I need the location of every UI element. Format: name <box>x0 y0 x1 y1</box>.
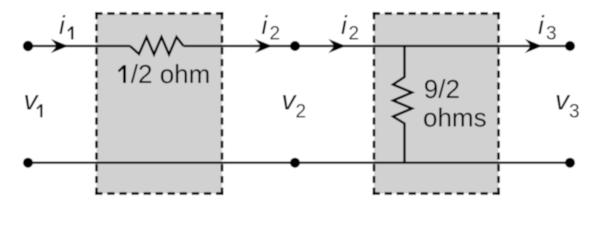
node v2 bottom (dot) <box>290 158 300 168</box>
svg-text:3: 3 <box>569 101 580 122</box>
wire top rail right segment <box>184 45 571 47</box>
svg-text:3: 3 <box>546 24 557 45</box>
two-port box 2 (shunt element) <box>373 12 500 195</box>
wire bottom rail <box>28 162 570 164</box>
two-port box 1 (series element) <box>95 12 223 195</box>
svg-text:/2 ohm: /2 ohm <box>131 59 211 89</box>
node terminal 3 bottom (dot) <box>565 158 575 168</box>
resistor R2 9/2 ohms (shunt, vertical zigzag) <box>393 46 412 163</box>
value label 1/2 ohm <box>118 65 126 83</box>
current arrow i2 (right of node v2) <box>328 39 346 53</box>
current arrow i3 <box>525 39 543 53</box>
wire top rail left segment <box>28 45 130 47</box>
node terminal 1 bottom (dot) <box>23 158 33 168</box>
current arrow i2 (left of node v2) <box>255 39 273 53</box>
svg-text:2: 2 <box>296 101 307 122</box>
svg-text:2: 2 <box>270 24 281 45</box>
svg-text:2: 2 <box>349 24 360 45</box>
svg-text:9/2: 9/2 <box>424 74 460 104</box>
current arrow i1 <box>51 39 69 53</box>
node terminal 1 top (dot) <box>23 41 33 51</box>
svg-text:v: v <box>24 85 40 116</box>
node terminal 3 top (dot) <box>565 41 575 51</box>
node v2 top (dot) <box>290 41 300 51</box>
resistor R1 1/2 ohm (series, horizontal zigzag) <box>130 37 184 55</box>
svg-text:ohms: ohms <box>423 102 487 132</box>
